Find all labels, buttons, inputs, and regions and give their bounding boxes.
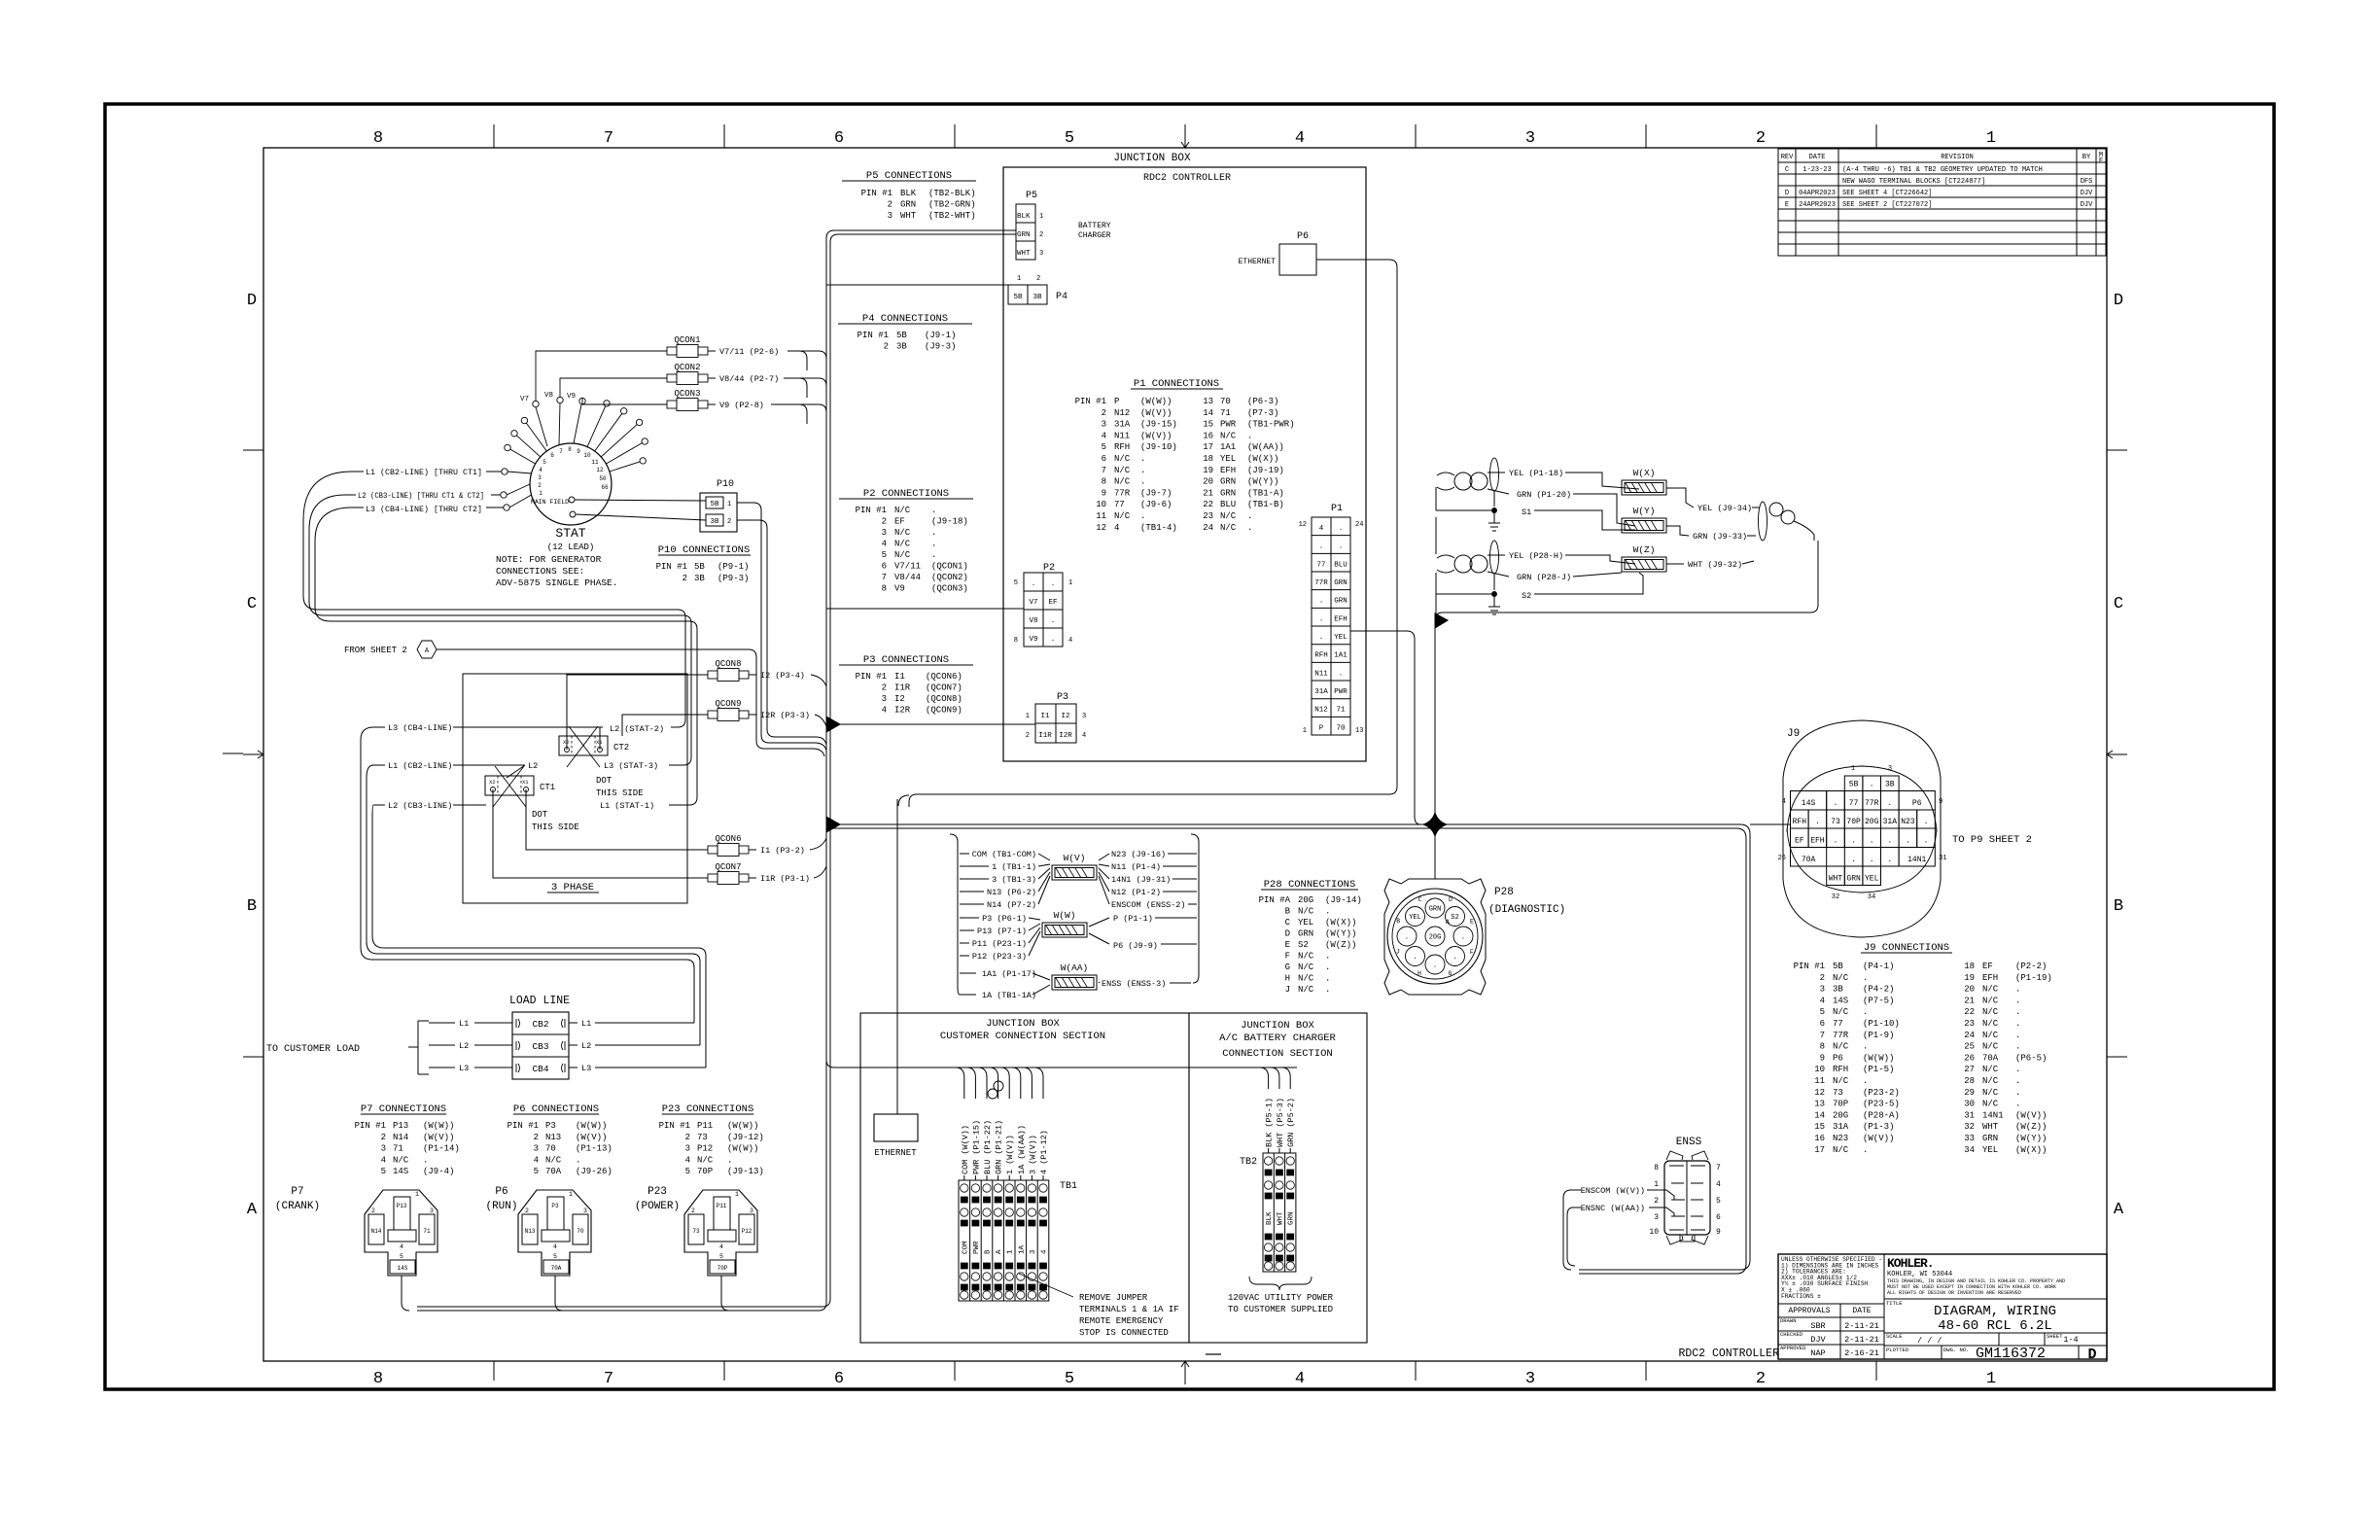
svg-text:3: 3 — [1654, 1213, 1659, 1222]
wire stator L-bundle — [303, 472, 697, 805]
svg-text:.: . — [2015, 1100, 2020, 1109]
svg-text:REVISION: REVISION — [1941, 154, 1974, 161]
svg-text:P10 CONNECTIONS: P10 CONNECTIONS — [658, 544, 751, 556]
svg-text:5: 5 — [882, 550, 887, 560]
svg-text:CONNECTION SECTION: CONNECTION SECTION — [1222, 1048, 1332, 1060]
svg-text:E: E — [1785, 201, 1789, 209]
connector J9 outline — [1783, 720, 1941, 937]
svg-text:4: 4 — [685, 1155, 690, 1165]
svg-text:G: G — [1448, 970, 1452, 977]
svg-text:(J9-19): (J9-19) — [1247, 466, 1284, 475]
svg-text:N13: N13 — [545, 1133, 561, 1142]
svg-text:N/C: N/C — [393, 1155, 409, 1165]
svg-text:(TB2-BLK): (TB2-BLK) — [928, 189, 976, 198]
svg-text:PWR (P1-15): PWR (P1-15) — [971, 1120, 981, 1174]
svg-text:RFH: RFH — [1114, 442, 1130, 452]
svg-text:V7/11 (P2-6): V7/11 (P2-6) — [719, 347, 779, 357]
CT wires — [493, 675, 700, 878]
S2 shield ground — [1488, 592, 1500, 615]
svg-text:C: C — [1418, 896, 1422, 903]
border frame — [105, 104, 2274, 1389]
svg-text:.: . — [1851, 837, 1856, 846]
svg-text:(12 LEAD): (12 LEAD) — [547, 542, 595, 552]
wire ENSS U left — [1563, 1202, 1571, 1270]
svg-text:W(W): W(W) — [1054, 910, 1076, 921]
TB1 drop wires — [956, 1067, 1043, 1180]
svg-text:70A: 70A — [545, 1167, 562, 1176]
J9 connections table — [1794, 942, 2052, 1155]
svg-text:16: 16 — [1814, 1134, 1825, 1143]
svg-text:BLK: BLK — [900, 189, 917, 198]
svg-text:/ / /: / / / — [1917, 1336, 1942, 1346]
svg-text:N/C: N/C — [1298, 974, 1314, 984]
svg-text:(QCON6): (QCON6) — [926, 672, 962, 682]
svg-text:JUNCTION BOX: JUNCTION BOX — [1113, 153, 1191, 164]
svg-text:(J9-4): (J9-4) — [423, 1167, 454, 1176]
W fan verticals — [950, 834, 1199, 995]
svg-text:2-11-21: 2-11-21 — [1844, 1321, 1879, 1331]
svg-text:CT2: CT2 — [613, 743, 629, 752]
svg-text:P1: P1 — [1331, 504, 1343, 514]
svg-text:.: . — [1325, 907, 1330, 917]
svg-text:I2: I2 — [1061, 713, 1069, 720]
svg-text:1: 1 — [1068, 579, 1072, 587]
wire P28 drop — [1434, 628, 1436, 879]
svg-text:REV: REV — [1781, 154, 1794, 161]
svg-text:BY: BY — [2082, 154, 2091, 161]
svg-text:.: . — [2015, 985, 2020, 995]
svg-text:.: . — [1319, 543, 1324, 551]
svg-text:E: E — [1470, 919, 1474, 926]
svg-text:P6 CONNECTIONS: P6 CONNECTIONS — [513, 1103, 599, 1115]
svg-text:N/C: N/C — [1114, 454, 1131, 464]
svg-text:BLK (P5-1): BLK (P5-1) — [1265, 1098, 1275, 1147]
svg-text:L3 (CB4-LINE): L3 (CB4-LINE) — [388, 723, 452, 733]
svg-text:2: 2 — [1820, 973, 1825, 983]
svg-text:F: F — [1285, 952, 1290, 962]
svg-text:32: 32 — [1832, 893, 1839, 901]
svg-text:(CRANK): (CRANK) — [275, 1201, 320, 1212]
svg-text:10: 10 — [583, 452, 591, 459]
svg-text:1A1 (P1-17): 1A1 (P1-17) — [982, 969, 1036, 979]
wire main bus — [826, 824, 1750, 1270]
svg-text:8: 8 — [1014, 637, 1018, 645]
svg-text:.: . — [931, 506, 936, 515]
svg-text:STAT: STAT — [555, 526, 585, 541]
svg-text:I1R: I1R — [894, 683, 911, 693]
terminal block TB1 — [959, 1180, 1049, 1301]
svg-text:(TB1-PWR): (TB1-PWR) — [1247, 420, 1295, 430]
svg-text:.: . — [1863, 973, 1868, 983]
svg-text:QCON9: QCON9 — [715, 699, 741, 709]
svg-text:N/C: N/C — [1298, 952, 1314, 962]
svg-text:TO CUSTOMER SUPPLIED: TO CUSTOMER SUPPLIED — [1228, 1305, 1333, 1314]
svg-text:(W(W)): (W(W)) — [727, 1144, 758, 1154]
svg-text:L1 (CB2-LINE) [THRU CT1]: L1 (CB2-LINE) [THRU CT1] — [366, 468, 482, 477]
svg-text:N12 (P1-2): N12 (P1-2) — [1111, 888, 1161, 897]
svg-text:H: H — [1417, 970, 1421, 977]
svg-text:.: . — [2015, 1065, 2020, 1074]
svg-text:N23: N23 — [1901, 818, 1915, 826]
svg-text:P12 (P23-3): P12 (P23-3) — [972, 952, 1027, 962]
svg-text:8: 8 — [1102, 477, 1106, 487]
svg-text:2: 2 — [884, 342, 889, 352]
P4 connections table — [838, 313, 972, 352]
svg-text:(P1-13): (P1-13) — [576, 1144, 612, 1154]
svg-text:50: 50 — [599, 475, 607, 482]
svg-text:GRN: GRN — [900, 200, 916, 210]
svg-text:(W(Z)): (W(Z)) — [1325, 940, 1356, 950]
svg-text:(P23-5): (P23-5) — [1863, 1100, 1900, 1109]
svg-text:P6: P6 — [1833, 1053, 1843, 1063]
svg-text:B: B — [1285, 907, 1291, 917]
svg-text:BLU: BLU — [1220, 500, 1236, 509]
svg-text:DJV: DJV — [2081, 201, 2093, 209]
svg-text:N/C: N/C — [1298, 962, 1314, 972]
svg-text:(POWER): (POWER) — [635, 1201, 680, 1212]
kohler logo — [1887, 1256, 2097, 1363]
svg-text:P11: P11 — [717, 1203, 727, 1209]
svg-text:(W(V)): (W(V)) — [1140, 431, 1172, 440]
svg-text:(J9-6): (J9-6) — [1140, 500, 1172, 509]
P5 connections table — [842, 170, 976, 221]
svg-text:1A1: 1A1 — [1220, 442, 1236, 452]
svg-text:SBR: SBR — [1810, 1321, 1825, 1331]
QCON6 splice — [700, 844, 756, 857]
svg-text:TB1: TB1 — [1060, 1181, 1077, 1192]
svg-text:.: . — [1433, 962, 1437, 970]
svg-text:GRN: GRN — [1334, 598, 1347, 606]
svg-text:WHT: WHT — [1277, 1211, 1284, 1225]
svg-text:5B: 5B — [694, 562, 705, 572]
shielded pair S2 group — [1437, 541, 1509, 590]
TB1 wire labels — [961, 1120, 1049, 1174]
svg-text:L2: L2 — [581, 1041, 591, 1051]
svg-text:3: 3 — [1525, 1370, 1535, 1388]
svg-text:C: C — [1285, 918, 1291, 927]
from sheet 2 hexagon — [344, 641, 437, 658]
svg-text:P: P — [1114, 397, 1119, 406]
svg-text:.: . — [1140, 454, 1145, 464]
S2 group wires to cables — [1436, 555, 1643, 594]
svg-text:D: D — [1785, 190, 1789, 197]
svg-text:21: 21 — [1203, 488, 1213, 498]
svg-text:.: . — [1140, 511, 1145, 521]
svg-text:20: 20 — [1203, 477, 1213, 487]
svg-text:V9: V9 — [894, 584, 905, 594]
svg-text:P3: P3 — [545, 1121, 556, 1131]
svg-text:11: 11 — [1814, 1076, 1825, 1086]
svg-text:1: 1 — [727, 501, 731, 508]
svg-text:12: 12 — [1814, 1088, 1825, 1098]
svg-text:PWR: PWR — [1220, 420, 1237, 430]
svg-text:L3 (CB4-LINE) [THRU CT2]: L3 (CB4-LINE) [THRU CT2] — [366, 505, 482, 514]
svg-text:70A: 70A — [1982, 1053, 1999, 1063]
wire P2 branch — [826, 608, 1024, 610]
svg-text:YEL: YEL — [1220, 454, 1236, 464]
svg-text:P13: P13 — [397, 1203, 407, 1209]
svg-text:L2: L2 — [459, 1041, 469, 1051]
right shield group — [1759, 502, 1815, 541]
svg-text:22: 22 — [1203, 500, 1213, 509]
svg-text:(P9-1): (P9-1) — [717, 562, 749, 572]
svg-text:1: 1 — [569, 1191, 573, 1198]
svg-text:QCON1: QCON1 — [674, 335, 700, 345]
svg-text:5: 5 — [1820, 1007, 1825, 1017]
svg-text:A: A — [996, 1249, 1003, 1254]
svg-text:L1: L1 — [459, 1019, 469, 1029]
svg-text:2-16-21: 2-16-21 — [1844, 1348, 1879, 1358]
svg-text:9: 9 — [577, 448, 580, 455]
P6 connections table — [507, 1103, 612, 1176]
svg-text:(TB1-4): (TB1-4) — [1140, 523, 1177, 533]
svg-text:19: 19 — [1203, 466, 1213, 475]
svg-text:(W(V)): (W(V)) — [2015, 1110, 2047, 1120]
svg-text:J9: J9 — [1787, 728, 1800, 740]
svg-text:P12: P12 — [742, 1228, 752, 1235]
svg-text:DATE: DATE — [1809, 154, 1826, 161]
svg-text:(W(W)): (W(W)) — [727, 1121, 758, 1131]
svg-text:70: 70 — [1336, 724, 1346, 732]
J9 pin grid — [1791, 776, 1936, 886]
svg-text:L1 (STAT-1): L1 (STAT-1) — [600, 801, 654, 811]
cable W(AA) — [1052, 975, 1097, 990]
svg-text:1: 1 — [1986, 1370, 1996, 1388]
svg-text:P2: P2 — [1043, 563, 1055, 574]
svg-text:3 (TB1-3): 3 (TB1-3) — [992, 875, 1036, 885]
svg-text:33: 33 — [1964, 1134, 1975, 1143]
svg-text:71: 71 — [423, 1228, 431, 1235]
svg-text:B: B — [985, 1249, 993, 1254]
svg-text:3: 3 — [750, 1207, 753, 1214]
svg-text:16: 16 — [1203, 431, 1213, 440]
svg-text:DWG. NO.: DWG. NO. — [1943, 1347, 1969, 1353]
svg-text:1-23-23: 1-23-23 — [1802, 166, 1831, 174]
svg-text:2: 2 — [381, 1133, 386, 1142]
svg-text:P13: P13 — [393, 1121, 408, 1131]
svg-text:I1 (P3-2): I1 (P3-2) — [760, 846, 805, 856]
svg-text:PIN #1: PIN #1 — [355, 1121, 386, 1131]
svg-text:(P1-19): (P1-19) — [2015, 973, 2052, 983]
svg-text:GRN: GRN — [1220, 488, 1236, 498]
svg-text:77R: 77R — [1114, 488, 1131, 498]
svg-text:2: 2 — [682, 574, 687, 583]
svg-text:N/C: N/C — [1298, 985, 1314, 995]
svg-text:1A (W(AA)): 1A (W(AA)) — [1017, 1125, 1027, 1174]
svg-text:2: 2 — [1654, 1197, 1659, 1206]
svg-text:1: 1 — [1039, 213, 1043, 221]
svg-text:.: . — [2015, 996, 2020, 1005]
svg-text:X2: X2 — [489, 779, 496, 786]
svg-text:CONNECTIONS SEE:: CONNECTIONS SEE: — [496, 566, 584, 577]
svg-text:2: 2 — [534, 1133, 539, 1142]
svg-text:YEL: YEL — [1409, 914, 1421, 922]
svg-text:.: . — [1887, 856, 1892, 864]
svg-text:W(Z): W(Z) — [1633, 544, 1656, 555]
svg-text:PIN #A: PIN #A — [1259, 895, 1291, 905]
svg-text:31A: 31A — [1883, 818, 1898, 826]
svg-text:9: 9 — [1102, 488, 1106, 498]
svg-text:L2 (CB3-LINE) [THRU CT1 & CT2]: L2 (CB3-LINE) [THRU CT1 & CT2] — [358, 491, 484, 501]
svg-text:N14 (P7-2): N14 (P7-2) — [987, 900, 1036, 910]
svg-text:(TB2-GRN): (TB2-GRN) — [928, 200, 976, 210]
svg-text:GRN: GRN — [1298, 929, 1313, 939]
svg-text:3: 3 — [430, 1207, 434, 1214]
P1 connections table — [1075, 378, 1295, 533]
svg-text:71: 71 — [1336, 707, 1346, 715]
svg-text:P28 CONNECTIONS: P28 CONNECTIONS — [1264, 879, 1356, 891]
svg-text:8: 8 — [373, 1370, 383, 1388]
svg-text:5B: 5B — [1833, 962, 1843, 971]
svg-text:66: 66 — [601, 484, 609, 491]
svg-text:(J9-15): (J9-15) — [1140, 420, 1177, 430]
svg-text:14S: 14S — [393, 1167, 408, 1176]
svg-text:5: 5 — [542, 459, 546, 466]
svg-text:3: 3 — [1039, 250, 1043, 258]
svg-text:3B: 3B — [710, 518, 719, 526]
svg-text:ENSCOM (W(V)): ENSCOM (W(V)) — [1581, 1186, 1645, 1196]
svg-text:COM (W(V)): COM (W(V)) — [961, 1125, 970, 1174]
svg-text:(P4-1): (P4-1) — [1863, 962, 1894, 971]
svg-text:18: 18 — [1964, 962, 1975, 971]
svg-text:10: 10 — [1096, 500, 1106, 509]
svg-text:PLOTTED: PLOTTED — [1886, 1347, 1909, 1353]
svg-text:DIAGRAM, WIRING: DIAGRAM, WIRING — [1934, 1304, 2056, 1319]
svg-text:5: 5 — [685, 1167, 690, 1176]
wire P4 branch — [826, 284, 1008, 286]
svg-text:CB2: CB2 — [532, 1019, 548, 1030]
svg-text:5: 5 — [719, 1253, 723, 1260]
svg-text:D: D — [1449, 896, 1452, 903]
svg-text:B: B — [1396, 918, 1400, 925]
svg-text:QCON7: QCON7 — [715, 862, 741, 872]
svg-text:13: 13 — [1355, 727, 1363, 735]
wire main trunk — [417, 230, 1016, 1311]
svg-text:(W(Y)): (W(Y)) — [1247, 477, 1278, 487]
svg-text:(W(W)): (W(W)) — [1863, 1053, 1894, 1063]
svg-text:(W(W)): (W(W)) — [1140, 397, 1172, 406]
svg-text:20G: 20G — [1833, 1110, 1848, 1120]
svg-text:(W(V)): (W(V)) — [576, 1133, 607, 1142]
svg-text:P23 CONNECTIONS: P23 CONNECTIONS — [662, 1103, 754, 1115]
svg-text:2: 2 — [1036, 275, 1040, 283]
svg-text:2: 2 — [538, 482, 542, 489]
svg-text:.: . — [1247, 523, 1252, 533]
svg-text:30: 30 — [1964, 1100, 1975, 1109]
svg-text:1: 1 — [735, 1191, 739, 1198]
S1 shield ground — [1488, 508, 1500, 532]
svg-text:I1: I1 — [1040, 713, 1050, 720]
svg-text:N/C: N/C — [1982, 1019, 1999, 1029]
svg-text:N/C: N/C — [1833, 1007, 1849, 1017]
svg-text:2: 2 — [1756, 1370, 1766, 1388]
svg-text:P2 CONNECTIONS: P2 CONNECTIONS — [863, 488, 949, 500]
connector P1 grid — [1299, 504, 1364, 735]
svg-text:3B: 3B — [1032, 294, 1042, 301]
svg-text:I1R (P3-1): I1R (P3-1) — [760, 874, 810, 884]
svg-text:ETHERNET: ETHERNET — [874, 1148, 917, 1158]
svg-text:GRN: GRN — [1982, 1134, 1998, 1143]
svg-text:(P6-5): (P6-5) — [2015, 1053, 2047, 1063]
svg-text:PIN #1: PIN #1 — [507, 1121, 539, 1131]
svg-text:(P28-A): (P28-A) — [1863, 1110, 1900, 1120]
svg-text:77R: 77R — [1833, 1031, 1849, 1040]
svg-text:2: 2 — [1026, 732, 1030, 740]
svg-text:2: 2 — [685, 1133, 690, 1142]
svg-text:(W(X)): (W(X)) — [2015, 1145, 2047, 1155]
svg-text:31: 31 — [1939, 855, 1946, 862]
svg-text:3: 3 — [882, 694, 887, 704]
svg-text:REMOTE EMERGENCY: REMOTE EMERGENCY — [1079, 1316, 1164, 1326]
svg-text:P3 CONNECTIONS: P3 CONNECTIONS — [863, 654, 949, 666]
svg-text:JUNCTION BOX: JUNCTION BOX — [1241, 1020, 1314, 1032]
svg-text:YEL (J9-34): YEL (J9-34) — [1697, 504, 1752, 513]
svg-text:N/C: N/C — [1982, 1065, 1999, 1074]
svg-text:70P: 70P — [1846, 818, 1861, 826]
svg-text:BATTERY: BATTERY — [1078, 222, 1111, 230]
svg-text:B: B — [247, 897, 257, 916]
svg-text:EF: EF — [1048, 599, 1057, 607]
svg-text:3B: 3B — [896, 342, 907, 352]
svg-text:PIN #1: PIN #1 — [659, 1121, 690, 1131]
svg-text:P: P — [1319, 724, 1324, 732]
svg-text:E: E — [1285, 940, 1290, 950]
svg-text:N13 (P6-2): N13 (P6-2) — [987, 888, 1036, 897]
svg-text:N/C: N/C — [894, 528, 911, 538]
svg-text:CB3: CB3 — [532, 1041, 548, 1052]
svg-text:N23 (J9-16): N23 (J9-16) — [1111, 850, 1166, 859]
svg-text:(J9-1): (J9-1) — [925, 331, 956, 340]
wire 3phase left labels to CB — [361, 727, 706, 1067]
svg-text:P12: P12 — [697, 1144, 713, 1154]
svg-text:DJV: DJV — [1810, 1335, 1826, 1345]
svg-text:14N1 (J9-31): 14N1 (J9-31) — [1111, 875, 1171, 885]
svg-text:77R: 77R — [1314, 579, 1328, 587]
svg-text:.: . — [931, 528, 936, 538]
svg-text:WHT: WHT — [1017, 250, 1031, 258]
svg-text:5: 5 — [534, 1167, 539, 1176]
P2 connections table — [839, 488, 973, 594]
svg-text:2: 2 — [727, 518, 731, 526]
svg-text:73: 73 — [1831, 818, 1840, 826]
svg-text:2: 2 — [1756, 129, 1766, 148]
svg-text:.: . — [2015, 1019, 2020, 1029]
junction box a/c battery charger section — [1189, 1013, 1367, 1343]
svg-text:.: . — [1851, 856, 1856, 864]
svg-text:3: 3 — [583, 1207, 587, 1214]
svg-text:.: . — [931, 550, 936, 560]
svg-text:(J9-7): (J9-7) — [1140, 488, 1172, 498]
svg-text:.: . — [1051, 580, 1056, 588]
svg-text:5: 5 — [1716, 1197, 1721, 1206]
svg-text:P4: P4 — [1056, 292, 1067, 302]
svg-text:N/C: N/C — [1833, 1042, 1849, 1052]
svg-text:(P7-5): (P7-5) — [1863, 996, 1894, 1005]
svg-text:N/C: N/C — [1982, 1100, 1999, 1109]
svg-text:.: . — [1461, 934, 1465, 942]
svg-text:GRN: GRN — [1017, 231, 1031, 239]
svg-text:C: C — [1785, 166, 1789, 174]
svg-text:.: . — [2015, 1076, 2020, 1086]
svg-text:4: 4 — [553, 1243, 557, 1250]
wire P6 ethernet route — [909, 260, 1397, 807]
svg-text:14: 14 — [1814, 1110, 1825, 1120]
cable W(V) — [1052, 865, 1097, 880]
svg-text:6: 6 — [1102, 454, 1106, 464]
svg-text:N12: N12 — [1114, 408, 1130, 418]
svg-text:77: 77 — [1833, 1019, 1843, 1029]
svg-text:14S: 14S — [1833, 996, 1848, 1005]
